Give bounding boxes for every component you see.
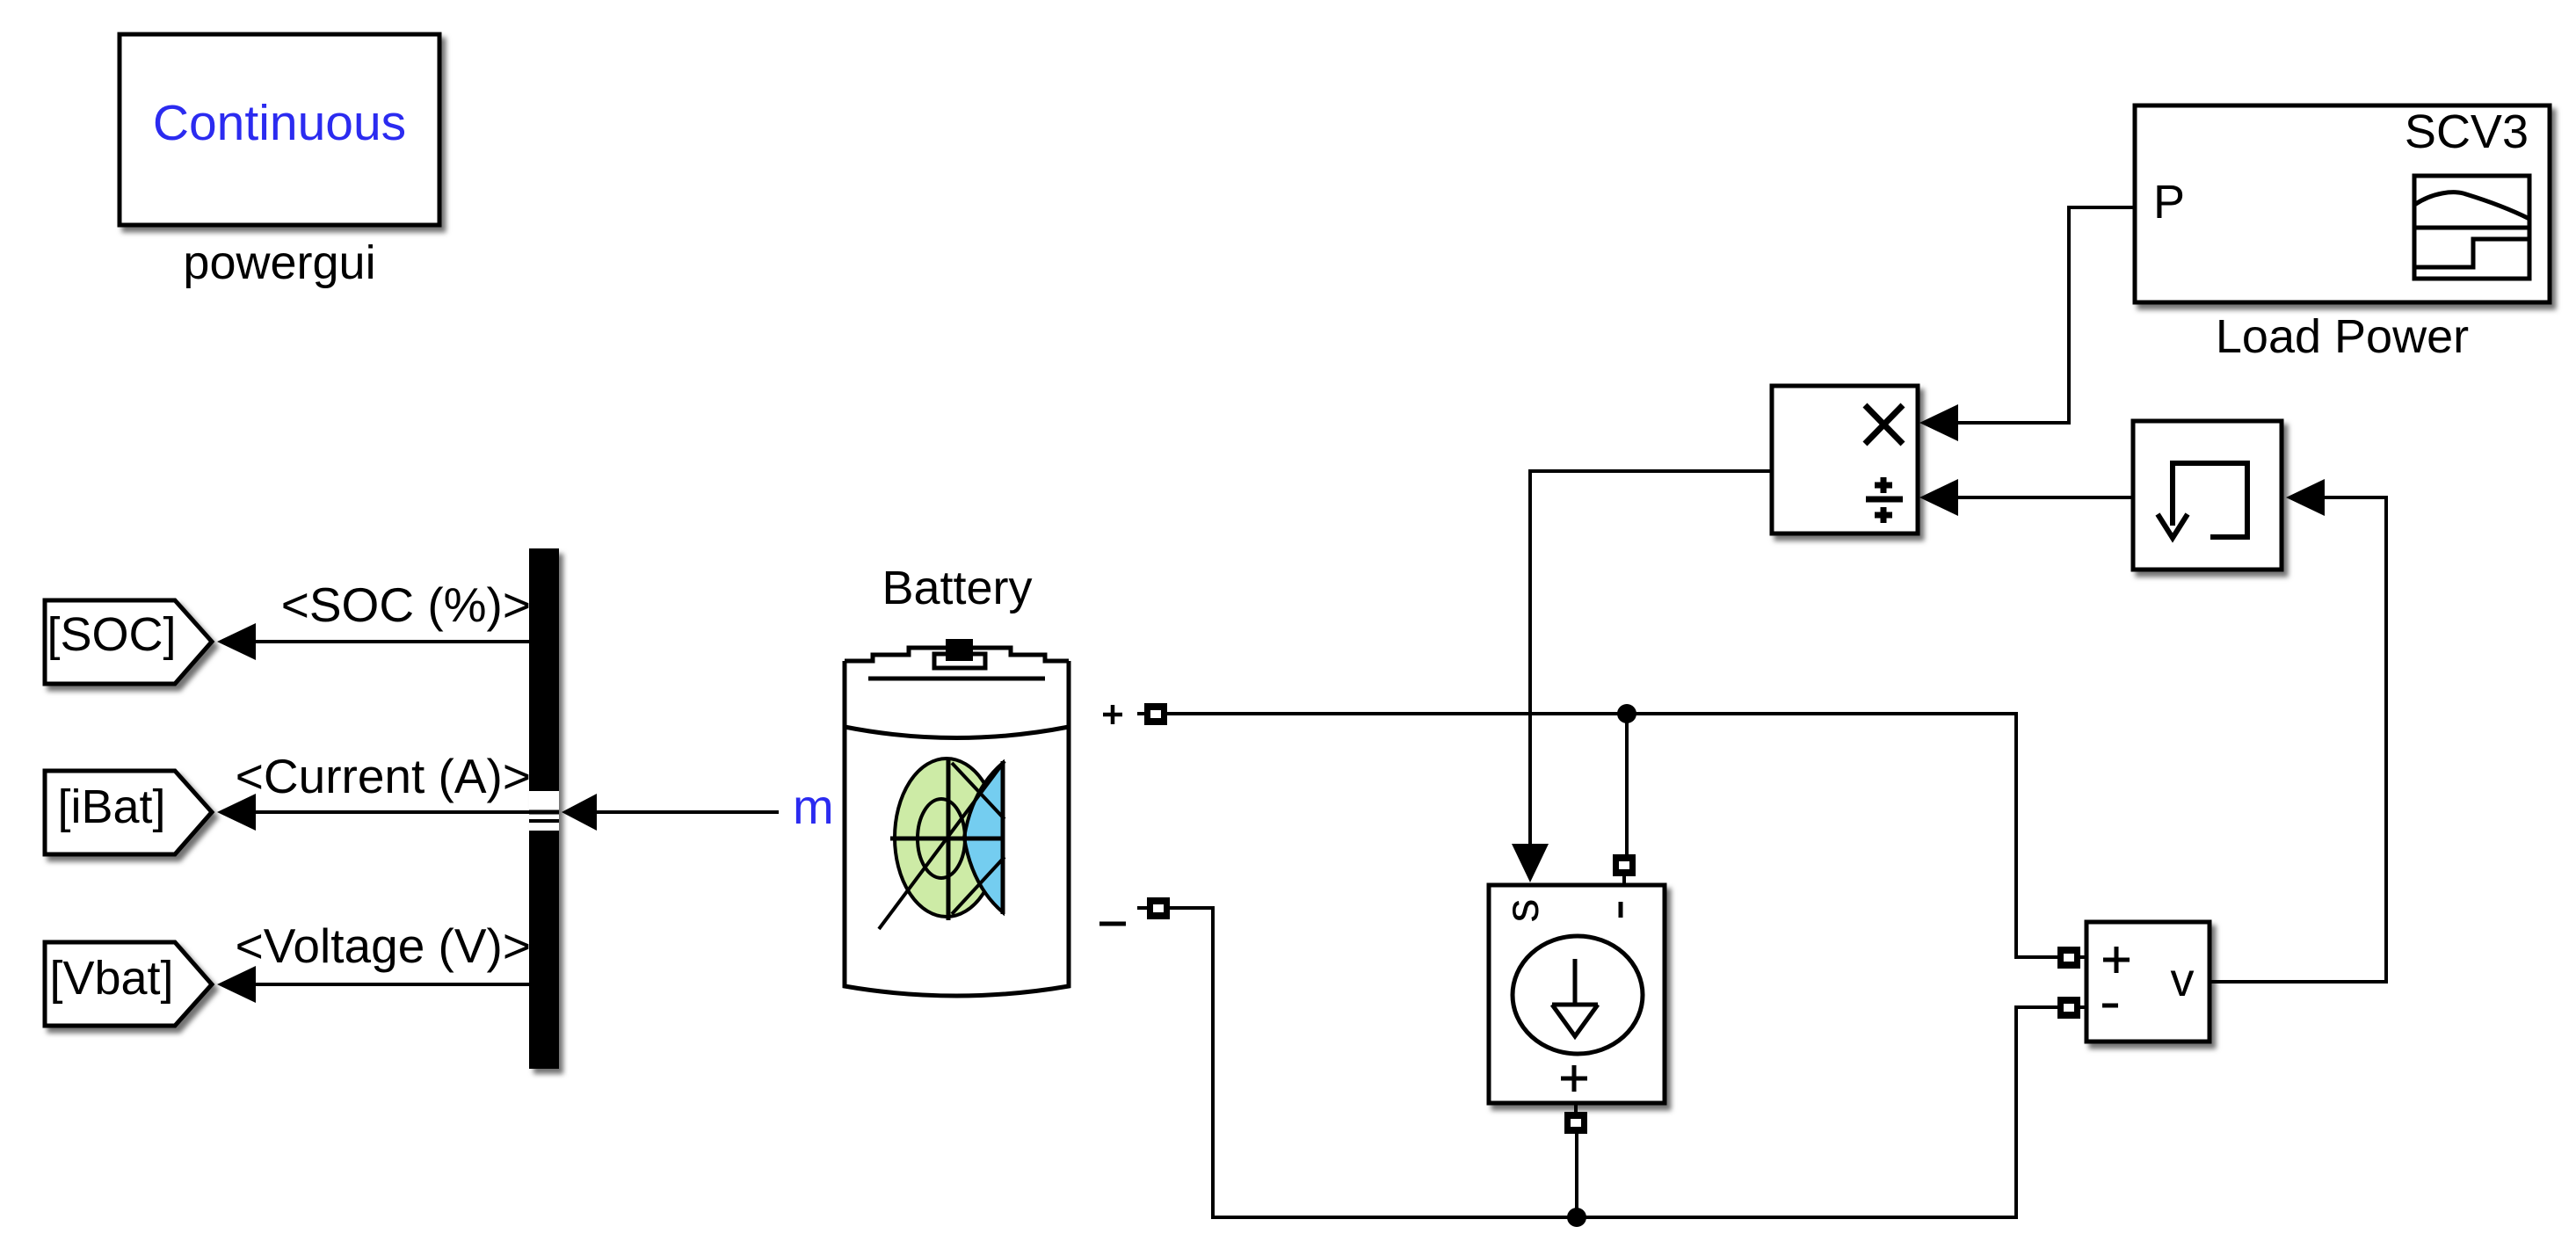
- bus selector input arrowhead: [562, 794, 597, 831]
- Bus Selector bar: [529, 548, 559, 1069]
- svg-text:SCV3: SCV3: [2405, 105, 2529, 158]
- voltage measurement + port: [2057, 947, 2086, 969]
- wire: battery + to voltage measurement + (top rail): [1167, 714, 2057, 957]
- wire: battery - to voltage measurement - (bottom rail): [1170, 908, 2057, 1217]
- Goto tag iBat: [45, 771, 212, 854]
- memory input arrowhead: [2286, 479, 2325, 516]
- current source - port: [1613, 854, 1636, 885]
- svg-text:Continuous: Continuous: [153, 95, 406, 151]
- svg-text:s: s: [1496, 899, 1549, 923]
- wire: + rail branch to current source - port: [1625, 714, 1629, 854]
- battery globe icon: [879, 759, 1005, 929]
- wire: memory output to divide / input: [1944, 496, 2133, 499]
- powergui block U1: [120, 34, 439, 225]
- battery + port label: [1103, 705, 1122, 724]
- battery top cap: [845, 648, 1069, 661]
- Voltage wire arrowhead: [217, 966, 256, 1003]
- wire: bus selector Current output: [253, 810, 533, 814]
- Divide block (product): [1772, 386, 1918, 534]
- svg-text:<SOC (%)>: <SOC (%)>: [281, 577, 531, 632]
- battery body: [845, 661, 1069, 996]
- junction node on bottom rail: [1567, 1208, 1586, 1227]
- wire: battery m to bus selector: [591, 810, 779, 814]
- svg-text:[Vbat]: [Vbat]: [49, 952, 173, 1005]
- current source + port: [1564, 1103, 1587, 1134]
- Memory block: [2133, 421, 2282, 570]
- svg-text:[iBat]: [iBat]: [57, 780, 165, 833]
- svg-text:[SOC]: [SOC]: [47, 608, 176, 661]
- divide block / input arrowhead: [1919, 479, 1958, 516]
- svg-text:Battery: Battery: [882, 562, 1032, 614]
- battery - port label: [1099, 922, 1126, 926]
- SOC wire arrowhead: [217, 623, 256, 660]
- svg-text:Load Power: Load Power: [2216, 310, 2469, 363]
- battery + port: [1137, 703, 1167, 725]
- wire: divide output to current source s input: [1530, 471, 1772, 846]
- Battery block icon: [845, 639, 1069, 996]
- Load Power block (SCV3 signal source): [2135, 105, 2550, 302]
- junction node on + rail: [1617, 704, 1636, 723]
- battery - port: [1137, 897, 1170, 919]
- svg-text:<Voltage (V)>: <Voltage (V)>: [236, 918, 531, 973]
- Voltage Measurement block: [2086, 922, 2210, 1042]
- svg-text:v: v: [2171, 954, 2195, 1006]
- Load Power icon: [2414, 176, 2529, 279]
- divide block x input arrowhead: [1919, 404, 1958, 441]
- Controlled Current Source block: [1489, 885, 1665, 1103]
- wire: current source + port to bottom rail: [1575, 1134, 1578, 1217]
- wire: voltage measurement output to memory input: [2210, 497, 2386, 982]
- svg-text:P: P: [2153, 176, 2185, 229]
- Goto tag Vbat: [45, 942, 212, 1026]
- svg-text:powergui: powergui: [183, 236, 375, 289]
- svg-text:<Current (A)>: <Current (A)>: [236, 749, 531, 803]
- battery top band: [845, 727, 1069, 738]
- wire: bus selector Voltage output: [253, 983, 533, 986]
- current source s input arrowhead: [1512, 844, 1549, 882]
- Current wire arrowhead: [217, 794, 256, 831]
- wire: Load Power P to divide x input: [1944, 207, 2135, 423]
- wire: bus selector SOC output: [253, 640, 533, 643]
- Goto tag SOC: [45, 600, 212, 684]
- svg-text:m: m: [793, 779, 834, 834]
- voltage measurement - port: [2057, 997, 2086, 1019]
